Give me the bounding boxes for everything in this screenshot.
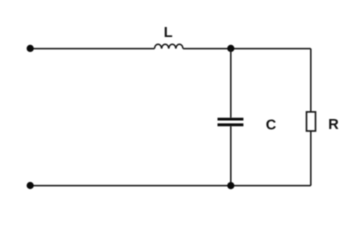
node junction dot bottom <box>227 182 234 189</box>
wire top-left horizontal segment <box>30 48 154 50</box>
wire top segment inductor to right corner <box>183 48 311 50</box>
svg-text:L: L <box>164 25 173 41</box>
svg-text:C: C <box>266 118 277 134</box>
resistor R <box>307 112 316 131</box>
svg-text:R: R <box>328 117 339 133</box>
wire capacitor branch upper <box>230 49 232 118</box>
wire bottom horizontal <box>30 185 311 187</box>
node junction dot top <box>227 45 234 52</box>
terminal dot bottom-left <box>27 182 34 189</box>
terminal dot top-left <box>27 45 34 52</box>
wire right vertical upper <box>310 49 312 112</box>
capacitor C <box>218 119 244 125</box>
wire capacitor branch lower <box>230 126 232 185</box>
wire right vertical lower <box>310 131 312 186</box>
inductor L <box>155 44 183 48</box>
